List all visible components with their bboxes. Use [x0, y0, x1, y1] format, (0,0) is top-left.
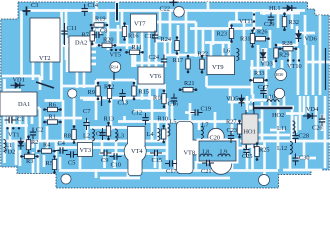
- svg-text:C10: C10: [111, 162, 122, 169]
- svg-text:C6: C6: [96, 131, 103, 138]
- svg-text:VT3: VT3: [80, 147, 92, 154]
- svg-text:C11: C11: [67, 25, 77, 32]
- svg-text:C3: C3: [31, 2, 38, 9]
- svg-text:VT11: VT11: [239, 18, 253, 25]
- svg-text:L10: L10: [265, 94, 275, 101]
- svg-text:R2: R2: [31, 139, 38, 146]
- svg-text:L7: L7: [202, 122, 209, 129]
- svg-text:C20: C20: [210, 135, 221, 142]
- svg-text:R15: R15: [139, 89, 150, 96]
- svg-text:R14: R14: [111, 65, 119, 70]
- svg-text:R17: R17: [173, 57, 184, 64]
- svg-text:VD4: VD4: [306, 106, 319, 113]
- svg-text:C24: C24: [149, 54, 160, 61]
- svg-text:VT2: VT2: [39, 55, 51, 62]
- svg-text:C2: C2: [36, 127, 43, 134]
- svg-text:C12: C12: [132, 110, 143, 117]
- svg-text:VT8: VT8: [184, 150, 196, 157]
- svg-text:R1: R1: [49, 114, 56, 121]
- svg-text:R27: R27: [226, 119, 237, 126]
- svg-text:R32: R32: [289, 19, 300, 26]
- svg-text:R20: R20: [103, 37, 114, 44]
- svg-text:VD2: VD2: [3, 149, 15, 156]
- svg-text:R29: R29: [279, 52, 290, 59]
- svg-text:C22: C22: [160, 6, 171, 13]
- svg-text:R7: R7: [82, 32, 89, 39]
- svg-text:R4: R4: [43, 142, 51, 149]
- svg-text:C8: C8: [100, 28, 107, 35]
- svg-text:L12: L12: [277, 145, 287, 152]
- svg-text:HO2: HO2: [272, 112, 284, 119]
- svg-text:VT5: VT5: [110, 52, 122, 59]
- svg-text:C21: C21: [201, 168, 212, 175]
- svg-text:L2: L2: [83, 133, 90, 140]
- svg-text:C1: C1: [17, 116, 24, 123]
- svg-text:VT7: VT7: [134, 21, 146, 28]
- svg-text:L9: L9: [220, 149, 227, 156]
- svg-text:R30: R30: [276, 72, 284, 77]
- svg-text:C15: C15: [152, 157, 163, 164]
- svg-text:VT4: VT4: [131, 148, 143, 155]
- svg-text:R13: R13: [104, 116, 115, 123]
- svg-text:VD6: VD6: [305, 36, 317, 43]
- svg-text:HO1: HO1: [244, 129, 256, 136]
- svg-text:DA2: DA2: [75, 40, 87, 47]
- svg-text:C30: C30: [299, 155, 310, 162]
- svg-text:R31: R31: [240, 36, 251, 43]
- svg-text:C26: C26: [312, 125, 323, 132]
- svg-text:C29: C29: [264, 21, 275, 28]
- svg-text:HL1: HL1: [269, 5, 281, 12]
- svg-text:R12: R12: [104, 84, 115, 91]
- svg-text:C9: C9: [101, 157, 108, 164]
- svg-text:C5: C5: [68, 160, 75, 167]
- svg-text:R33: R33: [254, 70, 265, 77]
- svg-text:R3: R3: [26, 158, 33, 165]
- svg-text:R25: R25: [259, 147, 270, 154]
- svg-text:R19: R19: [95, 16, 106, 23]
- svg-text:VD3: VD3: [261, 61, 273, 68]
- svg-text:C28: C28: [299, 133, 310, 140]
- svg-text:R24: R24: [161, 36, 172, 43]
- svg-text:C16: C16: [168, 101, 179, 108]
- svg-text:L3: L3: [117, 133, 124, 140]
- svg-text:L11: L11: [277, 125, 287, 132]
- svg-text:L6: L6: [223, 48, 230, 55]
- svg-text:VT1: VT1: [8, 132, 20, 139]
- svg-text:C18: C18: [145, 33, 156, 40]
- svg-text:L4: L4: [147, 131, 155, 138]
- svg-text:R21: R21: [184, 80, 195, 87]
- svg-text:R16: R16: [128, 33, 139, 40]
- svg-text:R22: R22: [198, 51, 209, 58]
- svg-text:R6: R6: [49, 102, 56, 109]
- svg-text:C4: C4: [58, 140, 66, 147]
- svg-text:VT9: VT9: [212, 64, 224, 71]
- svg-text:R8: R8: [64, 133, 71, 140]
- svg-text:R10: R10: [158, 116, 169, 123]
- svg-text:C27: C27: [258, 84, 269, 91]
- svg-text:C14: C14: [88, 2, 99, 9]
- svg-text:C7: C7: [83, 108, 90, 115]
- svg-text:R9: R9: [88, 89, 95, 96]
- svg-text:R26: R26: [257, 29, 268, 36]
- svg-text:L8: L8: [202, 149, 209, 156]
- svg-text:VT6: VT6: [150, 73, 162, 80]
- svg-text:C13: C13: [118, 100, 129, 107]
- svg-text:C25: C25: [242, 153, 253, 160]
- svg-text:C17: C17: [166, 168, 177, 175]
- svg-text:DA1: DA1: [18, 101, 30, 108]
- svg-text:VD1: VD1: [13, 77, 25, 84]
- svg-text:VT10: VT10: [287, 63, 302, 70]
- svg-text:R5: R5: [46, 160, 53, 167]
- svg-text:C23: C23: [227, 127, 238, 134]
- svg-text:R23: R23: [217, 31, 228, 38]
- svg-text:R28: R28: [282, 40, 293, 47]
- svg-text:L5: L5: [170, 119, 177, 126]
- svg-text:C19: C19: [201, 106, 212, 113]
- svg-text:R11: R11: [132, 44, 142, 51]
- svg-text:VD5: VD5: [226, 96, 238, 103]
